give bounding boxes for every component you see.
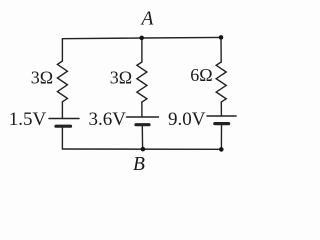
wire middle branch upper bbox=[141, 38, 143, 62]
wire left resistor to battery bbox=[61, 102, 63, 119]
battery V3 9.0V plates bbox=[207, 115, 236, 117]
svg-text:9.0V: 9.0V bbox=[168, 109, 206, 130]
wire left branch lower bbox=[61, 128, 63, 150]
wire middle branch lower bbox=[141, 126, 143, 149]
wire right resistor to battery bbox=[220, 102, 222, 116]
svg-text:3Ω: 3Ω bbox=[110, 68, 132, 88]
battery V1 1.5V plates bbox=[49, 118, 79, 120]
node B junction dot bbox=[141, 147, 146, 152]
node A junction dot bbox=[139, 36, 144, 41]
resistor R3 6ohm zigzag bbox=[216, 62, 226, 102]
wire right branch upper bbox=[220, 37, 222, 62]
wire top horizontal A rail bbox=[62, 37, 221, 38]
node bottom-right junction dot bbox=[219, 147, 224, 152]
resistor R2 3ohm middle zigzag bbox=[137, 62, 147, 102]
wire bottom horizontal B rail bbox=[62, 148, 221, 150]
wire left branch upper bbox=[61, 39, 63, 61]
resistor R1 3ohm left zigzag bbox=[57, 61, 67, 102]
wire middle resistor to battery bbox=[141, 102, 143, 117]
node top-right junction dot bbox=[219, 35, 224, 40]
svg-text:1.5V: 1.5V bbox=[9, 109, 47, 130]
svg-text:6Ω: 6Ω bbox=[190, 65, 212, 85]
svg-text:A: A bbox=[140, 8, 154, 29]
svg-text:B: B bbox=[133, 154, 145, 175]
svg-text:3Ω: 3Ω bbox=[31, 68, 53, 88]
svg-text:3.6V: 3.6V bbox=[89, 109, 127, 130]
wire right branch lower bbox=[220, 125, 222, 149]
battery V2 3.6V plates bbox=[127, 116, 159, 118]
